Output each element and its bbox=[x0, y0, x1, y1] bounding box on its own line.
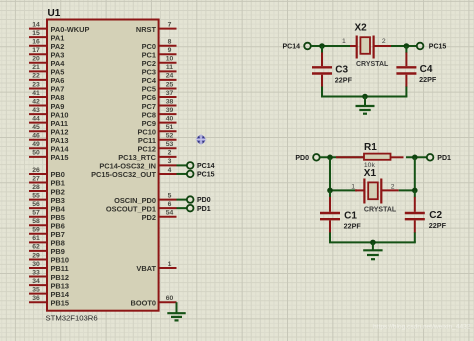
wire to terminal PD1 bbox=[177, 207, 187, 209]
pin PB14 (35) bbox=[29, 286, 70, 298]
svg-text:54: 54 bbox=[166, 210, 174, 217]
pin PC1 (9) bbox=[142, 47, 177, 59]
bottom wire (bottom circuit) bbox=[329, 241, 416, 243]
pin PA1 (15) bbox=[29, 30, 64, 42]
pin PC3 (11) bbox=[142, 64, 177, 76]
svg-text:45: 45 bbox=[32, 124, 40, 131]
pin PB8 (61) bbox=[29, 235, 65, 247]
terminal PC15 bbox=[417, 43, 424, 50]
svg-text:30: 30 bbox=[32, 261, 40, 268]
pin PB4 (56) bbox=[29, 201, 66, 213]
svg-text:56: 56 bbox=[32, 201, 40, 208]
pin PB5 (57) bbox=[29, 210, 65, 222]
pin PC9 (40) bbox=[142, 115, 177, 127]
svg-text:33: 33 bbox=[32, 269, 40, 276]
pin PC8 (39) bbox=[142, 107, 177, 119]
svg-text:53: 53 bbox=[166, 141, 174, 148]
svg-text:35: 35 bbox=[32, 286, 40, 293]
ground (top circuit) bbox=[356, 97, 375, 114]
terminal PC15 bbox=[187, 171, 194, 178]
svg-text:C1: C1 bbox=[344, 211, 357, 222]
wire R1 to PD1 bbox=[406, 156, 427, 158]
pin PC2 (10) bbox=[142, 56, 177, 68]
pin PA5 (21) bbox=[29, 64, 64, 76]
svg-text:24: 24 bbox=[166, 73, 174, 80]
ground at BOOT0 bbox=[167, 302, 185, 320]
svg-text:PD2: PD2 bbox=[142, 213, 156, 222]
capacitor C1 bbox=[320, 190, 340, 242]
pin OSCOUT_PD1 (6) bbox=[106, 201, 177, 213]
svg-text:X1: X1 bbox=[364, 168, 377, 179]
svg-text:STM32F103R6: STM32F103R6 bbox=[46, 314, 98, 323]
pin PA0-WKUP (14) bbox=[29, 21, 89, 33]
svg-text:51: 51 bbox=[166, 124, 174, 131]
pin PB2 (28) bbox=[29, 184, 65, 196]
pin PC10 (51) bbox=[138, 124, 177, 136]
pin PA6 (22) bbox=[29, 73, 64, 85]
svg-text:9: 9 bbox=[168, 47, 172, 54]
terminal PD0 bbox=[187, 196, 194, 203]
svg-text:CRYSTAL: CRYSTAL bbox=[364, 207, 397, 214]
svg-text:PB15: PB15 bbox=[51, 298, 70, 307]
svg-text:57: 57 bbox=[32, 210, 40, 217]
svg-text:22: 22 bbox=[32, 73, 40, 80]
wire left vertical PD0-X1 bbox=[329, 157, 331, 190]
crystal X2 bbox=[350, 36, 391, 59]
svg-text:11: 11 bbox=[166, 64, 173, 71]
pin PB10 (29) bbox=[29, 252, 69, 264]
svg-text:PC15: PC15 bbox=[197, 172, 215, 179]
svg-text:37: 37 bbox=[166, 90, 174, 97]
crystal X1 bbox=[355, 179, 399, 204]
pin PA14 (49) bbox=[29, 141, 69, 153]
svg-text:62: 62 bbox=[32, 244, 40, 251]
svg-text:25: 25 bbox=[166, 81, 174, 88]
junction node PD1/C2 bbox=[412, 155, 418, 161]
svg-text:1: 1 bbox=[351, 183, 355, 190]
svg-text:44: 44 bbox=[32, 115, 40, 122]
svg-text:PC15: PC15 bbox=[429, 44, 447, 51]
pin PA13 (46) bbox=[29, 133, 68, 145]
svg-text:29: 29 bbox=[32, 252, 40, 259]
pin PC7 (38) bbox=[142, 98, 177, 110]
junction node PD0/C1 bbox=[327, 155, 333, 161]
terminal PC14 bbox=[187, 162, 194, 169]
pin PA9 (42) bbox=[29, 98, 64, 110]
svg-text:7: 7 bbox=[168, 21, 172, 28]
pin PA2 (16) bbox=[29, 39, 64, 51]
junction node right bbox=[404, 43, 410, 49]
svg-text:22PF: 22PF bbox=[344, 221, 362, 230]
svg-text:NRST: NRST bbox=[136, 25, 157, 34]
pin PB9 (62) bbox=[29, 244, 65, 256]
pin PA7 (23) bbox=[29, 81, 64, 93]
svg-text:22PF: 22PF bbox=[335, 75, 353, 84]
junction node ground 2 bbox=[370, 240, 376, 246]
pin PA11 (44) bbox=[29, 115, 68, 127]
pin PD2 (54) bbox=[142, 210, 177, 222]
pin PA8 (41) bbox=[29, 90, 64, 102]
wire PC14 to X2 pin1 bbox=[311, 45, 350, 47]
capacitor C4 bbox=[396, 46, 416, 97]
svg-text:26: 26 bbox=[32, 167, 40, 174]
svg-text:1: 1 bbox=[168, 261, 172, 268]
pin PB0 (26) bbox=[29, 167, 65, 179]
svg-text:14: 14 bbox=[32, 21, 40, 28]
bottom wire (top circuit) bbox=[321, 96, 407, 98]
pin PA15 (50) bbox=[29, 150, 68, 162]
svg-text:X2: X2 bbox=[355, 23, 368, 34]
pin OSCIN_PD0 (5) bbox=[114, 192, 176, 204]
terminal PD1 bbox=[187, 205, 194, 212]
op IC body U1 bbox=[47, 20, 159, 311]
svg-text:34: 34 bbox=[32, 278, 40, 285]
svg-text:C4: C4 bbox=[420, 64, 433, 75]
svg-text:20: 20 bbox=[32, 56, 40, 63]
pin PC0 (8) bbox=[142, 39, 177, 51]
svg-text:PC14: PC14 bbox=[282, 44, 300, 51]
pin PB3 (55) bbox=[29, 192, 65, 204]
svg-text:BOOT0: BOOT0 bbox=[131, 298, 156, 307]
svg-text:21: 21 bbox=[32, 64, 40, 71]
svg-text:6: 6 bbox=[168, 201, 172, 208]
wire to terminal PC14 bbox=[177, 164, 187, 166]
svg-text:C3: C3 bbox=[335, 65, 348, 76]
junction node X1 left bbox=[327, 188, 333, 194]
pin PB7 (59) bbox=[29, 227, 65, 239]
svg-text:4: 4 bbox=[168, 167, 172, 174]
svg-text:22PF: 22PF bbox=[429, 221, 447, 230]
pin PC4 (24) bbox=[142, 73, 177, 85]
pin PC13_RTC (2) bbox=[118, 150, 176, 162]
svg-text:PD0: PD0 bbox=[295, 155, 309, 162]
svg-text:2: 2 bbox=[391, 183, 395, 190]
wire right vertical PD1-X1 bbox=[414, 157, 416, 190]
wire PD0 to R1 bbox=[320, 156, 364, 158]
pin PC6 (37) bbox=[142, 90, 177, 102]
svg-text:PD0: PD0 bbox=[197, 197, 211, 204]
svg-text:PC15-OSC32_OUT: PC15-OSC32_OUT bbox=[91, 170, 156, 179]
svg-text:16: 16 bbox=[32, 39, 40, 46]
svg-text:3: 3 bbox=[168, 158, 172, 165]
pin PA12 (45) bbox=[29, 124, 68, 136]
pin PB12 (33) bbox=[29, 269, 69, 281]
pin PB11 (30) bbox=[29, 261, 69, 273]
svg-text:39: 39 bbox=[166, 107, 174, 114]
pin PB6 (58) bbox=[29, 218, 65, 230]
svg-text:50: 50 bbox=[32, 150, 40, 157]
svg-text:22PF: 22PF bbox=[419, 75, 437, 84]
junction node left bbox=[319, 43, 325, 49]
pin PB15 (36) bbox=[29, 295, 69, 307]
pin BOOT0 (60) bbox=[131, 295, 177, 307]
svg-text:VBAT: VBAT bbox=[136, 264, 156, 273]
svg-text:PC14: PC14 bbox=[197, 163, 215, 170]
resistor R1 bbox=[336, 154, 404, 160]
svg-text:43: 43 bbox=[32, 107, 40, 114]
svg-text:42: 42 bbox=[32, 98, 40, 105]
wire X2 pin2 to PC15 bbox=[391, 45, 417, 47]
wire to terminal PD0 bbox=[177, 199, 187, 201]
svg-text:PD1: PD1 bbox=[437, 155, 451, 162]
pin PA10 (43) bbox=[29, 107, 68, 119]
svg-text:36: 36 bbox=[32, 295, 40, 302]
svg-text:PD1: PD1 bbox=[197, 206, 211, 213]
svg-text:59: 59 bbox=[32, 227, 40, 234]
svg-text:https://blog.csdn.net/weixin_4: https://blog.csdn.net/weixin_4432 bbox=[373, 324, 471, 331]
capacitor C3 bbox=[312, 46, 332, 97]
svg-text:27: 27 bbox=[32, 175, 40, 182]
junction node ground bbox=[362, 94, 368, 100]
pin VBAT (1) bbox=[136, 261, 176, 273]
svg-text:52: 52 bbox=[166, 133, 174, 140]
pin NRST (7) bbox=[136, 21, 177, 33]
terminal PD1 bbox=[427, 154, 434, 161]
svg-text:10: 10 bbox=[166, 56, 174, 63]
svg-text:1: 1 bbox=[342, 38, 346, 45]
svg-text:CRYSTAL: CRYSTAL bbox=[356, 61, 389, 68]
svg-text:60: 60 bbox=[166, 295, 174, 302]
pin PB1 (27) bbox=[29, 175, 65, 187]
pin PA4 (20) bbox=[29, 56, 65, 68]
svg-text:41: 41 bbox=[32, 90, 40, 97]
pin PC11 (52) bbox=[138, 133, 177, 145]
svg-text:58: 58 bbox=[32, 218, 40, 225]
svg-text:38: 38 bbox=[166, 98, 174, 105]
svg-text:8: 8 bbox=[168, 39, 172, 46]
svg-text:15: 15 bbox=[32, 30, 40, 37]
svg-text:2: 2 bbox=[168, 150, 172, 157]
svg-text:61: 61 bbox=[32, 235, 40, 242]
ground (bottom circuit) bbox=[363, 242, 382, 259]
pin PB13 (34) bbox=[29, 278, 69, 290]
svg-text:C2: C2 bbox=[429, 210, 442, 221]
svg-text:5: 5 bbox=[168, 192, 172, 199]
svg-text:28: 28 bbox=[32, 184, 40, 191]
pin PA3 (17) bbox=[29, 47, 64, 59]
svg-text:49: 49 bbox=[32, 141, 40, 148]
svg-text:R1: R1 bbox=[364, 142, 377, 153]
origin marker bbox=[196, 134, 207, 145]
wire to terminal PC15 bbox=[177, 173, 187, 175]
wire X1 pin2 to right vertical bbox=[399, 189, 415, 191]
pin PC15-OSC32_OUT (4) bbox=[91, 167, 176, 179]
pin PC12 (53) bbox=[138, 141, 177, 153]
svg-text:2: 2 bbox=[382, 38, 386, 45]
pin PC14-OSC32_IN (3) bbox=[99, 158, 176, 170]
capacitor C2 bbox=[405, 190, 425, 242]
pin PC5 (25) bbox=[142, 81, 177, 93]
junction node X1 right bbox=[412, 188, 418, 194]
svg-text:55: 55 bbox=[32, 192, 40, 199]
svg-text:46: 46 bbox=[32, 133, 40, 140]
svg-text:23: 23 bbox=[32, 81, 40, 88]
svg-text:40: 40 bbox=[166, 115, 174, 122]
wire to X1 pin1 bbox=[330, 189, 357, 191]
svg-text:U1: U1 bbox=[48, 8, 61, 19]
svg-text:17: 17 bbox=[32, 47, 40, 54]
svg-text:PA15: PA15 bbox=[51, 153, 69, 162]
